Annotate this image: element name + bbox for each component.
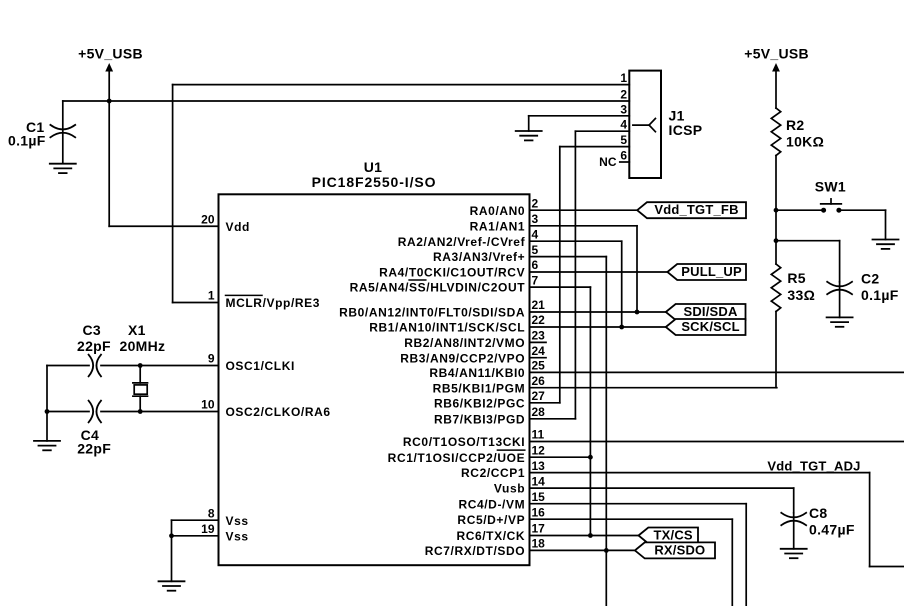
wire U1 pin12 RC1 stub to net [530, 456, 591, 458]
svg-text:25: 25 [532, 359, 546, 373]
wire J1 pin 5 (PGC) [560, 146, 630, 148]
wire U1 pin18 to flag [530, 549, 635, 551]
net flag RX/SDO [635, 542, 715, 558]
svg-text:2: 2 [532, 196, 539, 210]
svg-text:0.1µF: 0.1µF [861, 287, 899, 303]
IC U1 PIC18F2550-I/SO body [219, 159, 530, 565]
svg-text:1: 1 [208, 289, 215, 303]
svg-text:22: 22 [532, 313, 546, 327]
svg-text:1: 1 [620, 71, 627, 85]
svg-text:21: 21 [532, 298, 546, 312]
U1 pin 18 RC7/RX/DT/SDO [425, 537, 545, 558]
ground at SW1 [873, 239, 899, 241]
svg-text:C2: C2 [861, 271, 880, 287]
wire U1 pin22 to flag [530, 326, 666, 328]
svg-text:10KΩ: 10KΩ [786, 133, 824, 149]
power +5V_USB left [78, 45, 143, 226]
wire Vdd: +5V to U1 pin 20 [109, 225, 218, 227]
svg-text:Vss: Vss [226, 514, 249, 528]
svg-text:6: 6 [620, 149, 627, 163]
svg-text:SDI/SDA: SDI/SDA [683, 304, 738, 319]
svg-text:RB2/AN8/INT2/VMO: RB2/AN8/INT2/VMO [404, 336, 525, 350]
U1 pin 15 RC4/D-/VM [458, 490, 545, 511]
wire U1 pin 27 to PGC riser [530, 402, 560, 404]
U1 pin 1 MCLR/Vpp/RE3 [208, 289, 320, 310]
svg-text:PULL_UP: PULL_UP [681, 264, 742, 279]
svg-text:0.1µF: 0.1µF [8, 132, 46, 148]
U1 pin 6 RA4/T0CKI/C1OUT/RCV [379, 258, 538, 279]
connector J1 ICSP body [629, 71, 702, 178]
U1 pin 27 RB6/KBI2/PGC [434, 389, 545, 410]
svg-text:TX/CS: TX/CS [654, 528, 693, 543]
wire MCLR net: J1 pin1 to U1 pin1 riser [173, 84, 630, 86]
svg-text:4: 4 [532, 227, 539, 241]
svg-text:16: 16 [532, 505, 546, 519]
svg-text:24: 24 [532, 344, 546, 358]
svg-text:5: 5 [532, 243, 539, 257]
svg-text:12: 12 [532, 443, 546, 457]
svg-text:11: 11 [532, 428, 545, 442]
svg-text:13: 13 [532, 459, 546, 473]
capacitor C2 0.1uF [827, 271, 899, 318]
svg-text:RA1/AN1: RA1/AN1 [470, 219, 526, 233]
svg-text:23: 23 [532, 329, 546, 343]
svg-text:+5V_USB: +5V_USB [78, 45, 143, 61]
wire U1 pin15 RC4 to bottom edge [530, 504, 747, 606]
svg-text:Vss: Vss [226, 529, 249, 543]
junction R2 / SW1 / R5 [774, 208, 779, 213]
svg-text:15: 15 [532, 490, 546, 504]
junction Vss pin19 tee [169, 533, 174, 538]
wire U1 pin 8 Vss [172, 519, 219, 521]
U1 pin24 stub [530, 357, 547, 359]
wire U1 pin 28 to PGD riser [530, 418, 576, 420]
J1 pin 4 internal fork symbol [633, 119, 656, 132]
svg-text:RB5/KBI1/PGM: RB5/KBI1/PGM [433, 381, 526, 395]
svg-text:RC6/TX/CK: RC6/TX/CK [456, 529, 525, 543]
svg-text:RB6/KBI2/PGC: RB6/KBI2/PGC [434, 396, 525, 410]
svg-text:2: 2 [620, 88, 627, 102]
svg-text:17: 17 [532, 522, 546, 536]
junction RA3 net / pin18 RX [604, 548, 609, 553]
svg-text:RB0/AN12/INT0/FLT0/SDI/SDA: RB0/AN12/INT0/FLT0/SDI/SDA [339, 306, 525, 320]
ground under C2 [827, 316, 853, 318]
svg-text:OSC2/CLKO/RA6: OSC2/CLKO/RA6 [226, 405, 331, 419]
svg-text:RB3/AN9/CCP2/VPO: RB3/AN9/CCP2/VPO [400, 351, 525, 365]
svg-text:R2: R2 [786, 117, 805, 133]
capacitor C3 22pF [47, 322, 219, 377]
wire U1 pin2 RA0 to flag [530, 209, 638, 211]
power +5V_USB right [744, 45, 809, 108]
svg-text:U1: U1 [364, 159, 383, 175]
wire U1 pin6 RA4 to flag [530, 271, 668, 273]
svg-text:RX/SDO: RX/SDO [654, 542, 705, 557]
svg-text:X1: X1 [128, 322, 146, 338]
svg-text:33Ω: 33Ω [787, 287, 815, 303]
wire J1 pin 4 (PGD) [575, 130, 629, 132]
net flag TX/CS [639, 528, 699, 544]
svg-text:27: 27 [532, 389, 546, 403]
svg-text:14: 14 [532, 474, 546, 488]
wire U1 pin 19 Vss [172, 535, 219, 537]
U1 pin 7 RA5/AN4/SS/HLVDIN/C2OUT [350, 273, 539, 294]
svg-text:19: 19 [201, 522, 215, 536]
capacitor C8 0.47uF [781, 505, 855, 549]
wire +5V net: C1 to J1 pin2 [63, 100, 630, 102]
U1 pin 26 RB5/KBI1/PGM [433, 374, 546, 395]
svg-text:22pF: 22pF [77, 338, 111, 354]
U1 pin 13 RC2/CCP1 [461, 459, 545, 480]
U1 pin 4 RA2/AN2/Vref-/CVref [398, 227, 539, 248]
svg-text:RA0/AN0: RA0/AN0 [470, 204, 526, 218]
junction X1 bottom / OSC2 [138, 409, 143, 414]
U1 pin 22 RB1/AN10/INT1/SCK/SCL [369, 313, 545, 334]
wire C3/C4 ground rail [46, 366, 48, 441]
junction RA5 net / pin17 TX [588, 533, 593, 538]
U1 pin 8 Vss [208, 506, 249, 527]
U1 pin 14 Vusb [494, 474, 545, 495]
U1 pin 20 Vdd [201, 212, 250, 233]
wire junction to C2 [776, 241, 840, 282]
U1 pin 9 OSC1/CLKI [208, 352, 295, 373]
svg-text:8: 8 [208, 506, 215, 520]
wire U1 pin5 RA3 vertical to RX/SDO and bottom [530, 257, 607, 606]
svg-text:Vdd: Vdd [226, 220, 250, 234]
svg-text:10: 10 [201, 398, 215, 412]
net flag Vdd_TGT_FB [637, 202, 746, 218]
U1 pin 23 RB2/AN8/INT2/VMO [404, 329, 545, 350]
U1 pin 2 RA0/AN0 [470, 196, 539, 217]
wire MCLR to U1 pin 1 [173, 302, 219, 304]
U1 pin 12 RC1/T1OSI/CCP2/UOE [388, 443, 545, 464]
svg-text:RC7/RX/DT/SDO: RC7/RX/DT/SDO [425, 544, 525, 558]
wire U1 pin11 RC0 to right edge [530, 441, 904, 443]
wire R2 to R5 [775, 210, 777, 241]
net flag PULL_UP [667, 264, 746, 280]
wire U1 pin16 RC5 to bottom edge [530, 519, 733, 606]
net flag SDI/SDA [666, 304, 746, 320]
junction RA2 / pin22 SCK [619, 325, 624, 330]
U1 pin 28 RB7/KBI3/PGD [434, 405, 545, 426]
svg-text:7: 7 [532, 273, 539, 287]
U1 pin23 stub [530, 341, 547, 343]
svg-text:NC: NC [599, 155, 617, 169]
U1 pin 24 RB3/AN9/CCP2/VPO [400, 344, 545, 365]
svg-text:RB7/KBI3/PGD: RB7/KBI3/PGD [434, 412, 525, 426]
U1 pin 11 RC0/T1OSO/T13CKI [403, 428, 545, 449]
U1 pin 25 RB4/AN11/KBI0 [429, 359, 545, 380]
svg-text:26: 26 [532, 374, 546, 388]
svg-text:3: 3 [532, 212, 539, 226]
wire U1 pin3 RA1 to SDI/SDA vertical [530, 226, 638, 312]
ground under C1 [50, 163, 76, 165]
svg-text:5: 5 [620, 133, 627, 147]
ground at J1 pin 3 [516, 130, 542, 132]
svg-text:0.47µF: 0.47µF [809, 521, 855, 537]
svg-text:SCK/SCL: SCK/SCL [681, 319, 739, 334]
svg-text:28: 28 [532, 405, 546, 419]
junction +5V / C1 / J1 pin2 wire [107, 99, 112, 104]
wire Vss down to ground [171, 520, 173, 581]
svg-text:RB4/AN11/KBI0: RB4/AN11/KBI0 [429, 366, 525, 380]
junction RA5 net / pin12 UOE [588, 455, 593, 460]
capacitor C4 22pF [47, 401, 219, 457]
junction R5 / C2 tee [774, 238, 779, 243]
svg-text:RC4/D-/VM: RC4/D-/VM [458, 497, 525, 511]
svg-text:22pF: 22pF [77, 441, 111, 457]
U1 pin 5 RA3/AN3/Vref+ [433, 243, 538, 264]
ground under Vss [159, 580, 185, 582]
capacitor C1 0.1uF [8, 101, 75, 164]
resistor R5 33ohm [771, 241, 815, 388]
wire U1 pin25 RB4 to right edge [530, 371, 904, 373]
wire U1 pin7 RA5/SS vertical to TX/CS [530, 287, 591, 535]
resistor R2 10K [771, 108, 824, 210]
svg-text:OSC1/CLKI: OSC1/CLKI [226, 359, 295, 373]
U1 pin 21 RB0/AN12/INT0/FLT0/SDI/SDA [339, 298, 545, 319]
svg-text:SW1: SW1 [815, 179, 846, 195]
svg-text:C3: C3 [83, 322, 102, 338]
junction X1 top / OSC1 [138, 363, 143, 368]
svg-text:RA3/AN3/Vref+: RA3/AN3/Vref+ [433, 250, 525, 264]
junction RA1 / pin21 SDI [635, 310, 640, 315]
svg-text:+5V_USB: +5V_USB [744, 45, 809, 61]
wire U1 pin21 to flag [530, 311, 666, 313]
svg-text:18: 18 [532, 537, 546, 551]
switch SW1 [776, 179, 886, 240]
wire U1 pin17 to flag [530, 535, 639, 537]
wire U1 pin13 Vdd_TGT_ADJ [530, 473, 904, 567]
svg-text:RA4/T0CKI/C1OUT/RCV: RA4/T0CKI/C1OUT/RCV [379, 266, 525, 280]
wire U1 pin4 RA2 to SCK/SCL vertical [530, 241, 622, 327]
svg-text:PIC18F2550-I/SO: PIC18F2550-I/SO [312, 174, 437, 190]
svg-text:MCLR/Vpp/RE3: MCLR/Vpp/RE3 [226, 296, 321, 310]
wire J1 pin 3 to ground [529, 116, 630, 131]
svg-text:4: 4 [620, 118, 627, 132]
U1 pin 3 RA1/AN1 [470, 212, 539, 233]
net flag SCK/SCL [666, 319, 746, 335]
svg-text:Vdd_TGT_ADJ: Vdd_TGT_ADJ [767, 458, 860, 473]
svg-text:6: 6 [532, 258, 539, 272]
svg-text:RC2/CCP1: RC2/CCP1 [461, 466, 525, 480]
svg-text:RC0/T1OSO/T13CKI: RC0/T1OSO/T13CKI [403, 435, 525, 449]
U1 pin 16 RC5/D+/VP [457, 505, 545, 526]
crystal X1 20MHz [120, 322, 166, 412]
wire U1 pin14 Vusb to C8 [530, 488, 794, 513]
J1 pin 6 NC stub [599, 155, 629, 169]
wire R5 to U1 pin 26 [530, 387, 777, 389]
junction C4 / ground rail [45, 409, 50, 414]
wire PGC riser to U1 pin 27 [559, 147, 561, 403]
U1 pin 17 RC6/TX/CK [456, 522, 545, 543]
svg-text:20MHz: 20MHz [120, 338, 166, 354]
svg-text:Vusb: Vusb [494, 482, 525, 496]
svg-text:RC1/T1OSI/CCP2/UOE: RC1/T1OSI/CCP2/UOE [388, 451, 526, 465]
svg-text:3: 3 [620, 102, 627, 116]
ground under C8 [781, 548, 807, 550]
svg-text:R5: R5 [787, 270, 806, 286]
svg-text:Vdd_TGT_FB: Vdd_TGT_FB [654, 202, 738, 217]
svg-text:C8: C8 [809, 505, 828, 521]
ground under oscillator [34, 440, 60, 442]
wire PGD riser to U1 pin 28 [574, 131, 576, 419]
svg-text:9: 9 [208, 352, 215, 366]
svg-text:RB1/AN10/INT1/SCK/SCL: RB1/AN10/INT1/SCK/SCL [369, 321, 525, 335]
svg-text:20: 20 [201, 212, 215, 226]
svg-text:RC5/D+/VP: RC5/D+/VP [457, 513, 525, 527]
U1 pin 19 Vss [201, 522, 249, 543]
svg-text:ICSP: ICSP [669, 122, 703, 138]
svg-text:RA5/AN4/SS/HLVDIN/C2OUT: RA5/AN4/SS/HLVDIN/C2OUT [350, 281, 526, 295]
svg-text:RA2/AN2/Vref-/CVref: RA2/AN2/Vref-/CVref [398, 235, 526, 249]
U1 pin 10 OSC2/CLKO/RA6 [201, 398, 331, 419]
